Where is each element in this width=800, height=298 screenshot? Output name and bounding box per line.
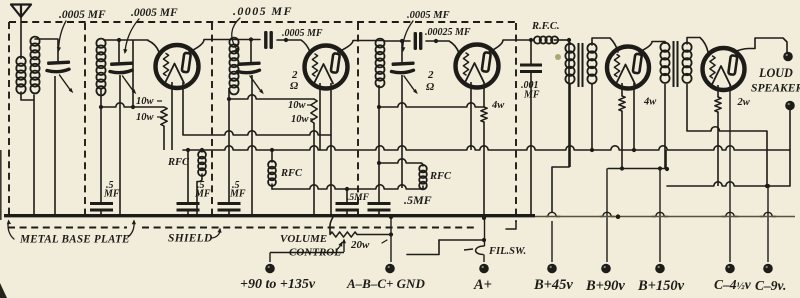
wire C2 top lead (118, 40, 120, 62)
svg-text:Ω: Ω (426, 81, 435, 93)
shield wall right of detector (506, 23, 516, 229)
label .0005 MF (third) (233, 4, 293, 18)
label .5 MF for C5 (103, 180, 120, 200)
svg-text:RFC: RFC (280, 168, 303, 179)
transformer T2 primary (660, 42, 669, 172)
terminal loudspeaker top (783, 52, 793, 62)
label .5MF for C10 (347, 193, 370, 203)
svg-text:.0005 MF: .0005 MF (233, 4, 293, 18)
resistor R5 2w (715, 85, 721, 186)
wire B+45 lead down (546, 167, 569, 262)
svg-text:2w: 2w (737, 97, 751, 108)
wire V2 plate lead (338, 41, 384, 53)
svg-text:R.F.C.: R.F.C. (531, 21, 560, 32)
tube V4 first audio (607, 47, 649, 89)
svg-text:MF: MF (194, 189, 211, 200)
svg-text:C–9v.: C–9v. (755, 278, 786, 293)
svg-text:.0005 MF: .0005 MF (131, 7, 178, 19)
wire V1 filament left leg (171, 82, 173, 150)
svg-text:RFC: RFC (429, 171, 452, 182)
grid capacitor C7 .0005 (264, 31, 273, 49)
coil L1 primary (antenna) (16, 57, 25, 94)
wire R1 bottom (163, 126, 165, 150)
wire speaker return y186 (667, 110, 790, 188)
wire L1 secondary top to C1 (35, 39, 58, 61)
wire A+ lead (483, 218, 486, 262)
svg-text:VOLUME: VOLUME (280, 233, 327, 245)
label FIL.SW. (488, 246, 526, 257)
wire to fil switch (407, 238, 486, 255)
svg-text:10w: 10w (136, 112, 155, 123)
shield wall left (8, 22, 10, 215)
variable capacitor C1 (47, 60, 73, 93)
capacitor C12 .001MF (520, 40, 542, 215)
label .5 MF for C6 (194, 180, 211, 200)
svg-text:.0005 MF: .0005 MF (59, 9, 106, 21)
wire C-9 lead (760, 184, 776, 262)
svg-text:2: 2 (427, 69, 434, 81)
arrow left of METAL BASE PLATE (7, 220, 14, 240)
arrow from second .0005 MF label to C2 (123, 19, 139, 54)
wire V1 filament right leg (182, 82, 184, 135)
svg-text:Ω: Ω (290, 80, 299, 92)
variable capacitor C2 (110, 61, 136, 94)
wire V3 plate lead (489, 40, 534, 52)
arrow from CONTROL to wiper (336, 242, 342, 251)
transformer T2 core (674, 41, 678, 87)
fil switch (464, 246, 484, 255)
svg-text:.00025 MF: .00025 MF (425, 27, 471, 38)
label A+ (473, 277, 492, 293)
resistor R4 4w (619, 83, 625, 169)
terminal B+45 (547, 264, 557, 274)
wire V1 plate lead (189, 40, 238, 53)
resistor R2 10 ohm (311, 99, 317, 123)
label .0005MF at C7 (282, 28, 323, 39)
label .5 MF for C8 (229, 180, 246, 200)
resistor R1 10 ohm (161, 107, 167, 126)
wire y169 connector (608, 150, 666, 171)
label R.F.C. (531, 21, 560, 32)
label B+90v (585, 278, 625, 294)
svg-text:B+150v: B+150v (637, 278, 685, 294)
svg-text:METAL BASE PLATE: METAL BASE PLATE (19, 234, 130, 246)
svg-text:.0005 MF: .0005 MF (407, 10, 450, 21)
label 4w audio1 (643, 97, 657, 108)
wire bracket to R3 (377, 103, 484, 109)
print artifact olive spot (555, 54, 561, 60)
wire V4 plate lead (639, 42, 665, 53)
terminal A+ (479, 264, 489, 274)
wire L3 bottom to bypass cap C8 (228, 88, 230, 202)
wire V2 filament left leg (319, 83, 321, 150)
svg-text:.5MF: .5MF (404, 193, 432, 207)
label C-9v (755, 278, 786, 293)
wire L4 bottom down to .5MF cap (378, 85, 380, 202)
transformer T1 secondary (587, 38, 618, 150)
coil L4 (376, 39, 385, 88)
svg-text:MF: MF (229, 189, 246, 200)
svg-text:CONTROL: CONTROL (289, 247, 341, 259)
wire C4 top lead (401, 41, 403, 62)
arrow right of METAL BASE PLATE (128, 220, 136, 238)
terminal B+150 (655, 264, 665, 274)
shield wall between RF1 and RF2 stage (211, 23, 213, 215)
wire L2 bottom to bypass cap C5 (100, 88, 102, 202)
shield dashed line below base plate (8, 227, 478, 229)
capacitor C8 .5MF bypass (218, 202, 241, 215)
wire L4 top grid line (384, 39, 459, 53)
svg-text:10w: 10w (288, 100, 307, 111)
wire V3 right leg to R3 (483, 82, 485, 107)
arrow from first .0005 MF label to C1 (57, 21, 66, 52)
svg-text:+90 to +135v: +90 to +135v (240, 277, 316, 292)
wire C1 bottom to base (54, 76, 56, 214)
label .00025 MF (425, 27, 471, 38)
tube V2 (305, 46, 348, 89)
label .5MF for C11 (404, 193, 432, 207)
label METAL BASE PLATE (19, 234, 130, 246)
tube V5 power audio (703, 48, 745, 90)
label 2 megohm grid leak V3 (426, 69, 435, 93)
capacitor C10 .5MF (336, 189, 359, 215)
variable capacitor C4 (392, 61, 418, 94)
coil L1 secondary (30, 37, 39, 94)
svg-text:MF: MF (523, 90, 540, 101)
terminal +90 to +135 (265, 264, 275, 274)
RFC choke 1 (197, 148, 206, 215)
svg-text:20w: 20w (350, 239, 370, 251)
wire C2 bottom lead (119, 75, 121, 215)
capacitor C11 .5MF (368, 202, 391, 215)
shield wall between RF2 and detector stage (357, 23, 359, 215)
tube V3 detector (456, 45, 499, 88)
label A-B-C+ GND (346, 276, 425, 291)
tube V1 (156, 45, 199, 88)
junction dot on base plate (616, 214, 621, 219)
label 2w (737, 97, 751, 108)
terminal B+90 (601, 264, 611, 274)
svg-text:A+: A+ (473, 277, 492, 293)
label 4w detector (491, 100, 505, 111)
arrow from fourth label to C4 (401, 21, 413, 52)
wire B+45 top lead (568, 40, 570, 167)
svg-text:LOUD: LOUD (758, 66, 793, 80)
capacitor C5 .5MF bypass (90, 202, 113, 215)
terminal C-4.5v (725, 264, 735, 274)
wire R2 bottom (313, 123, 315, 215)
svg-text:A–B–C+ GND: A–B–C+ GND (346, 276, 425, 291)
coil L2 (96, 39, 105, 96)
bus wire D (y189) (272, 185, 423, 191)
coil L3 (229, 38, 238, 95)
volume control rheostat (330, 217, 393, 237)
label B+150v (637, 278, 685, 294)
label +90 to +135v (240, 277, 316, 292)
shield box top edge (9, 21, 516, 23)
svg-text:SHIELD: SHIELD (168, 233, 213, 245)
shield wall between antenna and RF1 stage (84, 23, 86, 215)
wire B+90 lead (600, 169, 614, 263)
wire speaker circuit y131 (687, 127, 767, 186)
RFC choke 3 (419, 163, 427, 189)
wire C4 line down (401, 75, 403, 188)
label .0005 MF (first) (59, 9, 106, 21)
wire L2 top grid line (104, 38, 159, 52)
svg-text:MF: MF (103, 189, 120, 200)
svg-text:RFC: RFC (167, 157, 190, 168)
wire C3 line down (251, 75, 253, 215)
wire V5 plate to speaker (734, 38, 787, 52)
label 2 megohm grid leak V2 (290, 69, 299, 92)
antenna (11, 5, 31, 18)
svg-text:4w: 4w (643, 97, 657, 108)
RFC choke 2 (268, 150, 276, 189)
label .0005 MF (second) (131, 7, 178, 19)
label 20 ohm (350, 239, 387, 251)
wire grid line drop at C2 right (132, 40, 134, 107)
scan edge artifact bottom-left (0, 150, 7, 298)
terminal A-B-C+ GND (385, 264, 395, 274)
svg-text:.0005 MF: .0005 MF (282, 28, 323, 39)
label RFC 3 (429, 171, 452, 182)
svg-text:C–4½v: C–4½v (714, 277, 752, 292)
metal base plate line (4, 214, 795, 218)
terminal loudspeaker bottom (785, 101, 795, 111)
wire B+150 lead (652, 169, 668, 262)
bus wire B (y150) (183, 146, 790, 152)
label .0005 MF (fourth) (407, 10, 450, 21)
capacitor C6 .5MF bypass (177, 148, 200, 215)
wire bracket to R2 (227, 95, 314, 101)
wire V4 right leg (633, 83, 635, 150)
bus wire A (y134) (183, 131, 331, 135)
grid capacitor C9 .00025 (414, 32, 423, 50)
label RFC 1 (167, 157, 190, 168)
label B+45v (533, 277, 573, 293)
variable capacitor C3 (238, 61, 264, 94)
transformer T1 primary (565, 42, 574, 167)
grid return line y163 (377, 159, 421, 165)
wire antenna lead (20, 17, 22, 59)
label 10w upper (136, 96, 162, 107)
transformer T1 core (579, 43, 583, 87)
label 10w lower stage2 (291, 114, 315, 125)
wire C3 top lead (250, 40, 252, 63)
wire V2 filament right leg (330, 83, 332, 215)
svg-text:SPEAKER: SPEAKER (751, 82, 800, 95)
label SHIELD (168, 233, 213, 245)
svg-text:10w: 10w (136, 96, 155, 107)
arrow from SHIELD to dashed line (212, 228, 222, 238)
svg-text:FIL.SW.: FIL.SW. (488, 246, 526, 257)
label LOUD SPEAKER (751, 66, 800, 95)
svg-text:10w: 10w (291, 114, 310, 125)
label 10w lower (136, 112, 162, 123)
transformer T2 secondary (682, 38, 708, 132)
svg-text:.5MF: .5MF (347, 193, 370, 203)
svg-text:B+90v: B+90v (585, 278, 625, 294)
terminal C-9 (763, 264, 773, 274)
wire L3 top grid line (238, 37, 310, 52)
label VOLUME CONTROL (280, 233, 341, 259)
wire V5 right leg to C-4.5v (722, 85, 738, 262)
wire R3 bottom to fil switch (482, 122, 486, 220)
volume control wiper arrow (342, 239, 346, 253)
wire bracket to R1 (99, 103, 164, 109)
wire wiper to +90 terminal (270, 253, 344, 263)
label C-4.5v (714, 277, 752, 292)
resistor R3 4w (481, 107, 487, 122)
svg-text:4w: 4w (491, 100, 505, 111)
label RFC 2 (280, 168, 303, 179)
wire GND lead (389, 215, 393, 262)
svg-text:B+45v: B+45v (533, 277, 573, 293)
wire V3 filament left leg (470, 82, 472, 150)
arrow from third label to C3 (232, 18, 240, 53)
wire L1 primary bottom to ground bus (21, 92, 34, 214)
label 10w upper stage2 (288, 100, 312, 111)
label .001 MF (521, 80, 540, 101)
RFC choke 4 (plate) (529, 36, 571, 43)
